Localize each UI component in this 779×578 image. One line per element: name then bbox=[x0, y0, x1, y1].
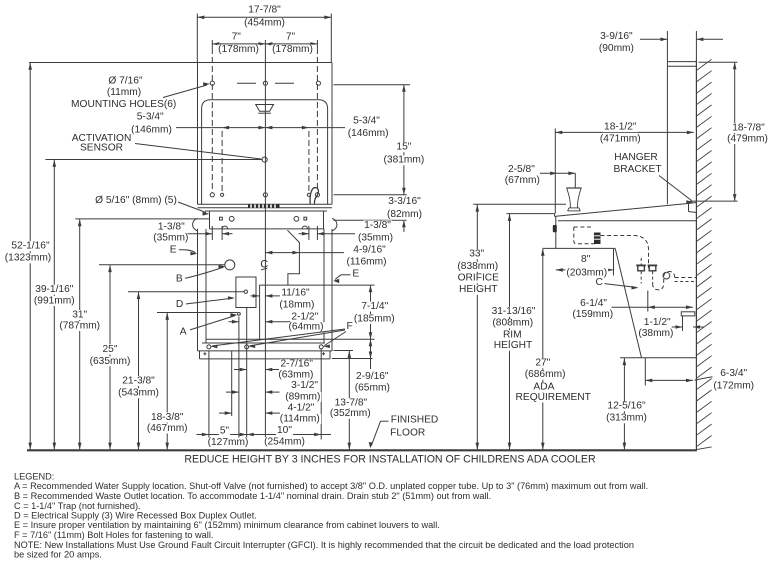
svg-text:13-7/8": 13-7/8" bbox=[335, 398, 368, 409]
wedge sloped front bbox=[615, 248, 641, 357]
svg-text:(991mm): (991mm) bbox=[34, 295, 75, 306]
label A with leader bbox=[179, 327, 188, 337]
svg-text:(159mm): (159mm) bbox=[572, 309, 613, 320]
svg-text:21-3/8": 21-3/8" bbox=[122, 376, 155, 387]
shroud bolt hole columns (dashed) bbox=[221, 131, 223, 192]
svg-text:C: C bbox=[596, 277, 603, 288]
dimension 5-3/4 right of sensor bbox=[352, 116, 381, 126]
svg-text:3-1/2": 3-1/2" bbox=[291, 380, 318, 391]
svg-text:D: D bbox=[176, 299, 183, 310]
svg-text:39-1/16": 39-1/16" bbox=[35, 284, 74, 295]
label F with three leaders bbox=[346, 322, 354, 332]
back panel (front view) with top extension line bbox=[29, 62, 332, 64]
drain stub 1-1/2 bbox=[681, 312, 695, 316]
dimension 2-7/16 bbox=[234, 369, 247, 371]
side panel against wall bbox=[666, 62, 668, 205]
label C trap with leader bbox=[595, 278, 604, 288]
wall hatching bbox=[696, 59, 711, 70]
svg-text:15": 15" bbox=[396, 142, 411, 153]
svg-text:12-5/16": 12-5/16" bbox=[607, 401, 646, 412]
mounting hole centerline columns (dashed) bbox=[211, 48, 213, 193]
svg-text:(185mm): (185mm) bbox=[354, 313, 395, 324]
svg-text:ORIFICE: ORIFICE bbox=[458, 273, 500, 284]
drain grille dark band bbox=[248, 205, 280, 208]
svg-text:SENSOR: SENSOR bbox=[80, 143, 123, 154]
svg-text:B = Recommended Waste Outlet l: B = Recommended Waste Outlet location. T… bbox=[14, 491, 491, 501]
svg-text:(454mm): (454mm) bbox=[244, 18, 285, 29]
svg-text:27": 27" bbox=[535, 358, 550, 369]
dimension 1-3/8 left bbox=[157, 222, 186, 232]
svg-text:HEIGHT: HEIGHT bbox=[459, 284, 498, 295]
svg-text:FINISHED: FINISHED bbox=[391, 415, 439, 426]
svg-text:BRACKET: BRACKET bbox=[613, 164, 661, 175]
svg-text:D = Electrical Supply (3) Wire: D = Electrical Supply (3) Wire Recessed … bbox=[14, 511, 257, 521]
dimension 18-3/8 supply height bbox=[157, 312, 237, 314]
cabinet louver bottom lines bbox=[206, 338, 375, 340]
svg-text:Ø 5/16" (8mm) (5): Ø 5/16" (8mm) (5) bbox=[95, 195, 177, 206]
svg-text:1-1/2": 1-1/2" bbox=[644, 317, 671, 328]
svg-text:(11mm): (11mm) bbox=[107, 87, 141, 98]
mounting holes top row bbox=[210, 81, 214, 85]
svg-text:4-1/2": 4-1/2" bbox=[288, 402, 315, 413]
electrical box D rectangle bbox=[236, 277, 256, 308]
mounting holes bottom row bbox=[210, 193, 214, 197]
svg-text:5-3/4": 5-3/4" bbox=[353, 116, 380, 127]
bolt holes F row bbox=[207, 345, 211, 349]
label Ø 5/16 bolt holes with leader bbox=[94, 196, 178, 206]
dimension 2-1/2 bbox=[229, 321, 239, 323]
svg-text:F: F bbox=[346, 321, 352, 332]
dimension 11/16 bbox=[251, 295, 260, 297]
dashed basin interior bbox=[574, 226, 593, 228]
svg-text:(116mm): (116mm) bbox=[347, 257, 387, 268]
dimension 39-1/16 sensor height extension line bbox=[45, 159, 262, 161]
svg-text:3-9/16": 3-9/16" bbox=[600, 31, 633, 42]
svg-text:(146mm): (146mm) bbox=[131, 124, 172, 135]
drain fitting black bbox=[594, 233, 601, 245]
dimension 31 deck height bbox=[75, 218, 209, 220]
svg-text:(90mm): (90mm) bbox=[599, 43, 634, 54]
svg-text:(38mm): (38mm) bbox=[638, 328, 673, 339]
svg-text:(67mm): (67mm) bbox=[505, 175, 540, 186]
svg-text:(63mm): (63mm) bbox=[278, 369, 313, 380]
label mounting holes with leader bbox=[107, 76, 143, 86]
stepped extension line for 4-9/16 bbox=[287, 230, 299, 285]
waste outlet B circle bbox=[225, 260, 235, 270]
svg-text:(381mm): (381mm) bbox=[384, 155, 425, 166]
dimension 12-5/16 bottom height bbox=[623, 358, 625, 450]
svg-text:11/16": 11/16" bbox=[281, 288, 310, 299]
svg-text:17-7/8": 17-7/8" bbox=[248, 5, 281, 16]
supply stop valves bbox=[638, 265, 645, 270]
svg-text:5": 5" bbox=[220, 425, 230, 436]
deck basin top lines bbox=[198, 203, 333, 205]
svg-text:33": 33" bbox=[469, 249, 484, 260]
dimension 33 orifice height bbox=[473, 203, 566, 205]
svg-text:7": 7" bbox=[286, 32, 296, 43]
dimension 5 inch bottom bbox=[197, 434, 209, 436]
svg-text:(64mm): (64mm) bbox=[288, 322, 323, 333]
dimension 2-9/16 bbox=[334, 358, 373, 360]
svg-text:(467mm): (467mm) bbox=[147, 423, 188, 434]
svg-text:MOUNTING HOLES(6): MOUNTING HOLES(6) bbox=[71, 99, 176, 110]
svg-text:2-9/16": 2-9/16" bbox=[356, 371, 389, 382]
svg-text:FLOOR: FLOOR bbox=[390, 427, 425, 438]
dimension 10 inch bottom bbox=[247, 434, 322, 436]
svg-text:ADA: ADA bbox=[533, 382, 554, 393]
svg-text:7-1/4": 7-1/4" bbox=[361, 301, 388, 312]
svg-text:E = Insure proper ventilation: E = Insure proper ventilation by maintai… bbox=[14, 520, 440, 530]
dimension 6-1/4 trap to wall bbox=[647, 291, 649, 312]
svg-text:(35mm): (35mm) bbox=[358, 233, 393, 244]
svg-text:2-5/8": 2-5/8" bbox=[508, 164, 535, 175]
dimension 1-3/8 right bbox=[363, 220, 392, 230]
svg-text:(89mm): (89mm) bbox=[285, 391, 320, 402]
bubbler side view bbox=[566, 187, 581, 189]
label E right with leader bbox=[351, 269, 360, 279]
svg-text:B: B bbox=[176, 273, 183, 284]
svg-text:F = 7/16" (11mm) Bolt Holes fo: F = 7/16" (11mm) Bolt Holes for fastenin… bbox=[14, 530, 213, 540]
dimension 3-1/2 bbox=[226, 391, 239, 393]
svg-text:4-9/16": 4-9/16" bbox=[353, 245, 386, 256]
dimension 31-13/16 rim height bbox=[509, 214, 511, 450]
svg-text:52-1/16": 52-1/16" bbox=[11, 241, 50, 252]
hanger bracket detail bbox=[688, 203, 690, 211]
svg-text:(313mm): (313mm) bbox=[606, 413, 647, 424]
dimension 2-5/8 bubbler offset bbox=[507, 165, 536, 175]
svg-text:(172mm): (172mm) bbox=[713, 380, 754, 391]
dimension 3-9/16 panel depth bbox=[666, 31, 668, 62]
svg-text:2-7/16": 2-7/16" bbox=[280, 359, 313, 370]
svg-text:(471mm): (471mm) bbox=[600, 133, 641, 144]
dimension 21-3/8 electrical height bbox=[128, 291, 244, 293]
bubbler trapezoid on shroud top bbox=[256, 105, 274, 112]
svg-text:REDUCE HEIGHT BY 3 INCHES FOR: REDUCE HEIGHT BY 3 INCHES FOR INSTALLATI… bbox=[184, 454, 596, 466]
svg-text:(127mm): (127mm) bbox=[208, 437, 249, 448]
dimension 4-9/16 bbox=[265, 252, 344, 254]
svg-text:1-3/8": 1-3/8" bbox=[364, 220, 391, 231]
dimension 7 inch right hole spacing bbox=[285, 32, 296, 42]
svg-text:A: A bbox=[180, 327, 187, 338]
svg-text:(787mm): (787mm) bbox=[59, 320, 100, 331]
svg-text:25": 25" bbox=[103, 344, 118, 355]
svg-text:(18mm): (18mm) bbox=[279, 299, 314, 310]
dashed drain pipe bbox=[601, 236, 649, 269]
svg-text:(178mm): (178mm) bbox=[272, 44, 313, 55]
svg-text:(114mm): (114mm) bbox=[280, 413, 320, 424]
cabinet body sides bbox=[197, 229, 199, 351]
deck bolt circles and clips bbox=[229, 216, 234, 221]
svg-text:31-13/16": 31-13/16" bbox=[492, 306, 536, 317]
svg-text:(479mm): (479mm) bbox=[727, 133, 768, 144]
basin top slope side view bbox=[555, 204, 687, 217]
cabinet bottom and base bbox=[198, 350, 333, 352]
dimension 5-3/4 left of sensor bbox=[136, 112, 165, 122]
svg-text:LEGEND:: LEGEND: bbox=[14, 472, 54, 482]
svg-text:(352mm): (352mm) bbox=[330, 408, 371, 419]
floor line bbox=[27, 449, 697, 451]
svg-text:(35mm): (35mm) bbox=[153, 232, 188, 243]
water supply A hole bbox=[238, 313, 241, 316]
dimension 6-3/4 bottom depth bbox=[644, 358, 646, 386]
wall line bbox=[695, 59, 697, 449]
sensor window front bbox=[553, 225, 557, 232]
svg-text:18-1/2": 18-1/2" bbox=[604, 122, 637, 133]
cooler bottom side view bbox=[620, 357, 696, 359]
shroud cover rounded outline bbox=[202, 100, 328, 205]
svg-text:E: E bbox=[170, 244, 177, 255]
dimension 7-1/4 bbox=[370, 285, 372, 339]
svg-text:(1323mm): (1323mm) bbox=[5, 253, 51, 264]
dimension 8 inch trap offset bbox=[613, 248, 615, 275]
svg-text:be sized for 20 amps.: be sized for 20 amps. bbox=[14, 550, 102, 560]
dimension 27 ADA requirement bbox=[542, 249, 544, 450]
svg-text:HANGER: HANGER bbox=[614, 152, 658, 163]
svg-text:RIM: RIM bbox=[503, 329, 522, 340]
activation sensor label and leader bbox=[69, 134, 133, 144]
svg-text:HEIGHT: HEIGHT bbox=[494, 340, 533, 351]
svg-text:5-3/4": 5-3/4" bbox=[137, 111, 164, 122]
dimension 18-1/2 depth from wall bbox=[554, 128, 556, 213]
bottom hole extension columns bbox=[208, 351, 210, 439]
svg-text:A = Recommended Water Supply l: A = Recommended Water Supply location. S… bbox=[14, 481, 648, 491]
label B with leader bbox=[175, 274, 184, 284]
label D with leader bbox=[175, 300, 184, 310]
svg-text:(82mm): (82mm) bbox=[387, 209, 422, 220]
svg-text:(543mm): (543mm) bbox=[118, 388, 159, 399]
dimension 18-7/8 panel height bbox=[699, 61, 738, 63]
rim extension line bbox=[507, 213, 555, 215]
svg-text:6-1/4": 6-1/4" bbox=[580, 298, 607, 309]
svg-text:Ø 7/16": Ø 7/16" bbox=[108, 75, 143, 86]
basin bottom edge bbox=[558, 220, 696, 222]
svg-text:18-7/8": 18-7/8" bbox=[732, 122, 765, 133]
dimension 13-7/8 bbox=[334, 350, 354, 352]
dimension 25 waste height bbox=[99, 264, 225, 266]
side bumpers on deck bbox=[193, 218, 198, 230]
svg-text:7": 7" bbox=[232, 32, 242, 43]
vertical centerline of cooler bbox=[264, 48, 266, 438]
label E left with leader bbox=[169, 245, 178, 255]
svg-text:(65mm): (65mm) bbox=[355, 383, 390, 394]
activation sensor bbox=[262, 157, 267, 162]
svg-text:18-3/8": 18-3/8" bbox=[151, 412, 184, 423]
svg-text:(635mm): (635mm) bbox=[90, 356, 131, 367]
drain hook detail right of deck bbox=[310, 188, 318, 204]
svg-text:C = 1-1/4" Trap (not furnished: C = 1-1/4" Trap (not furnished). bbox=[14, 501, 141, 511]
svg-text:(686mm): (686mm) bbox=[525, 369, 566, 380]
dimension 7 inch left hole spacing bbox=[211, 40, 213, 48]
basin front face bbox=[555, 216, 557, 248]
svg-text:3-3/16": 3-3/16" bbox=[388, 196, 421, 207]
svg-text:1-3/8": 1-3/8" bbox=[158, 221, 185, 232]
svg-text:31": 31" bbox=[72, 309, 87, 320]
svg-text:8": 8" bbox=[581, 254, 591, 265]
svg-text:6-3/4": 6-3/4" bbox=[720, 368, 747, 379]
svg-text:(254mm): (254mm) bbox=[264, 437, 305, 448]
dimension 3-3/16 deck height bbox=[334, 219, 407, 221]
svg-text:E: E bbox=[352, 269, 359, 280]
right angle extension line bbox=[259, 284, 374, 286]
base tick marks bbox=[203, 353, 206, 355]
svg-text:(838mm): (838mm) bbox=[457, 261, 498, 272]
svg-text:(178mm): (178mm) bbox=[218, 44, 259, 55]
svg-text:(146mm): (146mm) bbox=[348, 128, 389, 139]
dimension 15 inch right side bbox=[334, 84, 411, 86]
apron bottom with ADA extension bbox=[543, 247, 616, 249]
svg-text:NOTE: New Installations Must U: NOTE: New Installations Must Use Ground … bbox=[14, 540, 634, 550]
dimension 52-1/16 overall height bbox=[29, 63, 31, 450]
dashed trap bbox=[653, 272, 675, 290]
svg-text:(203mm): (203mm) bbox=[566, 267, 607, 278]
svg-text:10": 10" bbox=[277, 425, 292, 436]
svg-text:REQUIREMENT: REQUIREMENT bbox=[516, 392, 591, 403]
dimension 4-1/2 bbox=[219, 412, 232, 414]
svg-text:(808mm): (808mm) bbox=[492, 318, 533, 329]
dimension 17-7/8 inch overall width bbox=[196, 14, 198, 63]
dimension 39-1/16 sensor height bbox=[53, 160, 55, 450]
